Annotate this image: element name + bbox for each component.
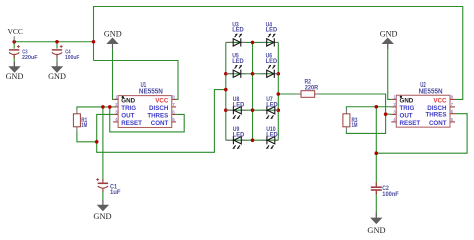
svg-text:GND: GND bbox=[93, 212, 111, 221]
svg-text:220uF: 220uF bbox=[22, 55, 38, 61]
svg-text:GND: GND bbox=[104, 29, 122, 38]
svg-text:LED: LED bbox=[266, 131, 278, 138]
svg-text:CONT: CONT bbox=[429, 120, 447, 127]
svg-text:LED: LED bbox=[232, 58, 244, 65]
svg-text:100uF: 100uF bbox=[65, 55, 80, 61]
svg-text:GND: GND bbox=[380, 29, 398, 38]
svg-text:1M: 1M bbox=[352, 122, 358, 129]
svg-text:220R: 220R bbox=[305, 84, 319, 91]
svg-text:100nF: 100nF bbox=[382, 191, 399, 198]
svg-text:OUT: OUT bbox=[400, 112, 413, 119]
svg-text:1M: 1M bbox=[81, 122, 87, 129]
svg-text:GND: GND bbox=[121, 97, 135, 104]
svg-text:VCC: VCC bbox=[155, 97, 169, 104]
svg-text:LED: LED bbox=[266, 58, 278, 65]
svg-text:CONT: CONT bbox=[151, 120, 169, 127]
svg-text:RESET: RESET bbox=[400, 120, 421, 127]
svg-text:LED: LED bbox=[266, 27, 278, 34]
svg-text:GND: GND bbox=[6, 72, 24, 81]
svg-text:VCC: VCC bbox=[433, 97, 447, 104]
svg-text:NE555N: NE555N bbox=[419, 88, 443, 95]
svg-text:LED: LED bbox=[233, 101, 245, 108]
svg-text:TRIG: TRIG bbox=[121, 105, 136, 112]
svg-text:VCC: VCC bbox=[7, 27, 22, 36]
svg-text:DISCH: DISCH bbox=[149, 105, 169, 112]
svg-text:THRES: THRES bbox=[147, 112, 168, 119]
svg-text:NE555N: NE555N bbox=[139, 88, 163, 95]
svg-text:LED: LED bbox=[233, 131, 245, 138]
svg-text:1uF: 1uF bbox=[110, 189, 121, 196]
svg-text:GND: GND bbox=[48, 72, 66, 81]
svg-text:THRES: THRES bbox=[426, 112, 447, 119]
svg-text:OUT: OUT bbox=[121, 112, 134, 119]
svg-text:TRIG: TRIG bbox=[400, 105, 415, 112]
svg-text:RESET: RESET bbox=[121, 120, 142, 127]
svg-text:GND: GND bbox=[400, 97, 414, 104]
svg-text:LED: LED bbox=[232, 27, 244, 34]
svg-text:GND: GND bbox=[367, 226, 385, 235]
svg-text:LED: LED bbox=[266, 101, 278, 108]
